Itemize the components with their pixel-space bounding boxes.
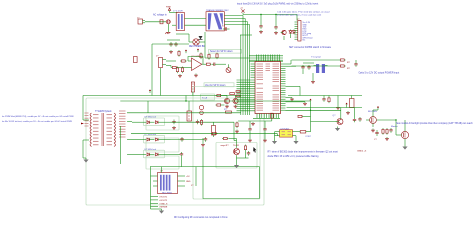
svg-text:for Rts W RX trickset, usable: for Rts W RX trickset, usable per 5V - 4… bbox=[2, 120, 72, 123]
svg-text:diode PMC 15 to WM +3.3, power: diode PMC 15 to WM +3.3, powered while b… bbox=[268, 155, 320, 158]
power flag bbox=[377, 106, 379, 110]
crystal Y1 bbox=[314, 64, 328, 73]
wire bbox=[283, 36, 285, 40]
wire bbox=[170, 66, 172, 68]
wire feedback loop bbox=[188, 57, 203, 65]
wire bbox=[234, 140, 237, 142]
resistor R28 bbox=[216, 104, 223, 106]
wire long rail A bbox=[127, 112, 241, 114]
comment TL431 line2 bbox=[268, 155, 320, 158]
wire bbox=[166, 60, 176, 62]
svg-text:D? SS54 sch: D? SS54 sch bbox=[145, 134, 157, 136]
wire bbox=[323, 96, 325, 98]
resistor R18 bbox=[382, 128, 384, 135]
svg-text:PC817: PC817 bbox=[306, 136, 312, 138]
ground bbox=[201, 143, 205, 146]
capacitor C20 bbox=[180, 137, 183, 142]
capacitor C18 bbox=[172, 120, 175, 125]
junction bbox=[395, 119, 396, 120]
ground bbox=[248, 139, 252, 142]
wire bbox=[312, 73, 314, 80]
wire T1 primary top bbox=[82, 96, 84, 121]
resistor R3 snubber bbox=[208, 53, 210, 60]
wire bbox=[337, 96, 339, 107]
section box rectifier D5 bbox=[146, 116, 179, 130]
wire bbox=[151, 175, 154, 177]
resistor R7 bbox=[205, 63, 212, 65]
comment C1 C16 line2 bbox=[277, 13, 322, 16]
comment TL431 line1 bbox=[268, 150, 339, 153]
power +12V bbox=[346, 103, 348, 107]
wire bbox=[355, 60, 357, 62]
wire bbox=[376, 119, 396, 121]
ground bbox=[336, 106, 340, 109]
wire bbox=[404, 143, 406, 145]
wire bbox=[202, 138, 204, 143]
wire bbox=[264, 121, 266, 127]
resistor R14 bbox=[339, 65, 346, 67]
ground opto out bbox=[293, 140, 298, 145]
resistor R17 bbox=[386, 128, 388, 135]
wire bbox=[259, 167, 261, 199]
wire T1 left drop bbox=[119, 126, 121, 164]
svg-text:AC voltage in: AC voltage in bbox=[153, 13, 167, 16]
resistor R20 bbox=[211, 132, 218, 134]
capacitor C2 X2 bbox=[174, 42, 177, 47]
svg-text:>VOUT1: >VOUT1 bbox=[159, 196, 168, 199]
diode D3 bbox=[292, 30, 295, 35]
wire T2 out 1 bbox=[224, 15, 243, 17]
fuse F1 lamp bbox=[166, 20, 170, 24]
section box diode D6 output rectifier bbox=[144, 135, 165, 143]
wire bbox=[166, 65, 171, 67]
svg-text:HLK-PM01: HLK-PM01 bbox=[162, 193, 173, 195]
common-mode choke L1 bbox=[176, 13, 184, 31]
power flag right bbox=[309, 99, 311, 103]
label R14 bbox=[347, 68, 351, 70]
capacitor C19 bbox=[196, 120, 199, 125]
wire top rail bbox=[243, 14, 297, 16]
svg-text:Y1 crystal: Y1 crystal bbox=[311, 56, 321, 59]
wire bbox=[236, 139, 238, 141]
wire module right bbox=[195, 167, 197, 186]
IC U2 microcontroller bbox=[255, 62, 281, 114]
T1 pin leads bbox=[83, 120, 132, 155]
wire long rail B bbox=[131, 133, 278, 135]
ground bbox=[178, 74, 182, 77]
comment SET line bbox=[289, 46, 332, 49]
wire Q2 drop bbox=[192, 92, 194, 96]
comment left line1 bbox=[2, 115, 74, 118]
section box diode D7 output rectifier bbox=[144, 150, 165, 158]
label K1 bbox=[162, 193, 173, 195]
section box feedback TL431 bbox=[216, 143, 257, 169]
svg-text:PWR: PWR bbox=[166, 7, 171, 9]
wire T2 out 3 bbox=[224, 21, 247, 23]
wire bbox=[275, 15, 277, 26]
earth ground chassis bbox=[165, 31, 170, 34]
ground primary bbox=[83, 158, 88, 163]
capacitor C22 bbox=[247, 151, 250, 156]
resistor R4 snubber bbox=[216, 53, 218, 60]
potentiometer RV1 bbox=[226, 64, 231, 73]
svg-text:Optio 5 to 12V DC output POWER: Optio 5 to 12V DC output POWER input bbox=[359, 72, 400, 75]
wire below U2 bbox=[253, 117, 280, 119]
transformer T1 flyback bbox=[85, 111, 126, 147]
ground bbox=[263, 139, 267, 142]
wire long rail C bbox=[150, 166, 260, 168]
capacitor C17 bbox=[354, 62, 357, 67]
ground bbox=[303, 102, 307, 105]
section box diode D5 output rectifier bbox=[144, 118, 165, 126]
resistor R10 pulldown bbox=[271, 113, 273, 121]
wire below U2 rail bbox=[238, 120, 272, 122]
wire to opamp inv bbox=[178, 67, 188, 69]
svg-text:wxya R?: wxya R? bbox=[221, 145, 230, 147]
comment option bbox=[359, 72, 400, 75]
TL431 U5 bbox=[233, 144, 240, 160]
diode D6 output rectifier bbox=[132, 134, 171, 141]
capacitor C14 bbox=[358, 117, 361, 122]
ground bbox=[169, 50, 173, 53]
svg-text:>SENSE: >SENSE bbox=[159, 206, 168, 209]
svg-text:>GND_S: >GND_S bbox=[159, 202, 168, 205]
resistor R1 bleeder bbox=[178, 50, 180, 57]
pin arrow T1 bbox=[81, 123, 84, 125]
transistor Q1 bbox=[281, 30, 287, 34]
optocoupler U4 highlighted bbox=[280, 130, 293, 137]
ground bbox=[251, 122, 255, 125]
capacitor C21 bbox=[180, 152, 183, 157]
wire bbox=[181, 157, 183, 167]
label L1 bbox=[173, 10, 183, 12]
resistor R29 bbox=[230, 93, 235, 95]
wire T2 bottom drop bbox=[204, 32, 206, 58]
wire HV rail to T1 bbox=[83, 95, 241, 97]
junction bbox=[260, 14, 261, 15]
op-amp U3 bbox=[188, 56, 205, 70]
ground bbox=[371, 129, 375, 132]
connector J7 vertical bbox=[191, 82, 194, 92]
wire bbox=[226, 96, 228, 99]
comment mosfet bbox=[396, 122, 473, 125]
wire bbox=[229, 138, 237, 140]
wire bbox=[295, 136, 297, 140]
label R13 bbox=[347, 62, 351, 64]
wire bbox=[249, 121, 251, 127]
label J6 bbox=[191, 185, 194, 187]
wire opto to Q5 base bbox=[311, 121, 336, 123]
wire row3 bbox=[171, 153, 181, 155]
power flag HV bbox=[149, 89, 151, 93]
transistor Q5 bbox=[335, 114, 343, 125]
wire bbox=[188, 101, 190, 111]
capacitor C10 bbox=[301, 65, 304, 70]
MOSFET M1 bbox=[366, 113, 376, 127]
wire bbox=[354, 108, 356, 118]
resistor R19 bbox=[200, 119, 202, 126]
svg-text:SET connector FW350 switch in: SET connector FW350 switch in firmware bbox=[289, 46, 332, 49]
resistor R2 snubber bbox=[200, 53, 202, 60]
wire rail to Q5 bbox=[286, 109, 341, 111]
wire T2 output corners bbox=[242, 16, 244, 18]
svg-text:IO_A: IO_A bbox=[202, 96, 208, 99]
svg-text:T? ER25 flyback: T? ER25 flyback bbox=[95, 111, 112, 113]
section box secondary side outer bbox=[86, 98, 264, 205]
wire choke lower left stub bbox=[172, 24, 176, 26]
resistor R21 bbox=[222, 137, 229, 139]
wire bbox=[236, 141, 238, 145]
resistor R9 bbox=[181, 67, 183, 74]
U2 right pins bbox=[281, 64, 286, 110]
label T1 bbox=[95, 111, 112, 113]
label T2 bbox=[206, 9, 229, 12]
wire bbox=[277, 134, 279, 136]
wire bbox=[340, 108, 342, 115]
capacitor C4 bbox=[259, 24, 262, 29]
cursor arrow bbox=[253, 147, 256, 153]
svg-text:RF Configuring RF commands not: RF Configuring RF commands not completed… bbox=[174, 216, 228, 219]
svg-text:Mosfet: Mosfet bbox=[391, 125, 398, 128]
label BR1 bbox=[189, 46, 205, 48]
svg-text:Select for SP IO down: Select for SP IO down bbox=[210, 50, 233, 53]
small connector J4 bbox=[134, 57, 138, 63]
label M2 bbox=[391, 125, 398, 128]
svg-text:L? 2.2mH: L? 2.2mH bbox=[173, 10, 183, 12]
ground feedback bbox=[234, 164, 239, 169]
connector J2 programming header bbox=[297, 19, 301, 41]
wire feedback tap bbox=[233, 122, 235, 140]
wire U2 pin to R14 bbox=[292, 65, 340, 67]
resistor R22 bbox=[244, 145, 246, 152]
ground bbox=[335, 127, 340, 132]
wire bbox=[235, 95, 237, 98]
capacitor C23 bbox=[263, 127, 266, 132]
wire vertical x310 bbox=[310, 102, 312, 132]
comment C1 C16 line1 bbox=[277, 10, 330, 13]
junction bbox=[185, 100, 186, 101]
wire J3 drop bbox=[160, 68, 162, 96]
wire bbox=[396, 134, 398, 136]
label AC input bbox=[153, 13, 167, 16]
resistor R26 horizontal bbox=[224, 109, 232, 113]
capacitor C20b bbox=[204, 137, 207, 142]
resistor R5 bbox=[171, 66, 178, 68]
transistor Q6 small bbox=[199, 105, 203, 109]
wire mesh above U2 bbox=[249, 55, 283, 62]
regulator U6 TO-220 bbox=[187, 111, 192, 121]
capacitor C11 bbox=[307, 65, 310, 70]
wire bbox=[222, 104, 224, 106]
ground bbox=[402, 145, 407, 150]
relay module K1 bbox=[158, 171, 178, 194]
wire bbox=[188, 34, 190, 42]
wire module left bbox=[150, 167, 152, 209]
resistor R6 bbox=[180, 60, 187, 62]
wire pwr to choke bbox=[170, 12, 178, 14]
section box power feedback bbox=[193, 87, 260, 200]
connector J1 AC inlet bbox=[137, 17, 145, 24]
wire bbox=[346, 106, 348, 107]
net label box A bbox=[201, 94, 215, 100]
ground bbox=[290, 97, 294, 100]
wire bbox=[372, 110, 374, 113]
bridge rectifier BR1 bbox=[189, 39, 203, 45]
diode D1 bbox=[199, 36, 203, 40]
diode D8 small bbox=[200, 111, 204, 115]
label bbox=[205, 84, 226, 87]
resistor R12 bbox=[236, 122, 238, 129]
ground opto in bbox=[272, 140, 277, 145]
svg-text:U? PC817: U? PC817 bbox=[281, 128, 290, 130]
comment left line2 bbox=[2, 120, 72, 123]
section label box Vout bbox=[204, 83, 234, 87]
resistor R23 bbox=[236, 91, 240, 93]
svg-text:D? SS54 sch: D? SS54 sch bbox=[145, 149, 157, 151]
ground bbox=[311, 80, 315, 83]
wire bbox=[292, 59, 340, 61]
wire bbox=[328, 96, 330, 97]
wire module top feed bbox=[161, 167, 163, 173]
svg-text:C1& C16 apex takes. P for vned: C1& C16 apex takes. P for vned two conta… bbox=[277, 10, 330, 13]
ground bbox=[346, 111, 350, 114]
svg-text:IRLZ44N: IRLZ44N bbox=[368, 111, 377, 113]
label Q5 bbox=[333, 115, 337, 117]
wire row1 bbox=[171, 121, 235, 123]
resistor R15 bbox=[328, 97, 330, 104]
svg-text:in defensible apex takes, if n: in defensible apex takes, if not, usab t… bbox=[277, 13, 322, 16]
wire bbox=[237, 157, 249, 159]
svg-text:TRANSFORMER 230V: TRANSFORMER 230V bbox=[206, 9, 229, 12]
wire bbox=[373, 109, 378, 111]
wire bbox=[296, 15, 298, 21]
U4 pins bbox=[275, 132, 298, 136]
wire bbox=[404, 120, 406, 127]
net stubs right of module bbox=[178, 176, 192, 186]
label net bbox=[357, 150, 367, 152]
resistor R25 vertical bbox=[212, 122, 216, 137]
capacitor C8 bbox=[212, 63, 217, 66]
wire bbox=[290, 34, 292, 38]
pin rows with net labels bbox=[151, 196, 168, 209]
resistor R24 bbox=[236, 95, 240, 97]
ground bbox=[259, 30, 263, 33]
power flag PWR_FLAG1 bbox=[166, 7, 171, 13]
label section select bbox=[210, 50, 233, 53]
wire choke to T2 lower bbox=[185, 24, 207, 26]
ground bbox=[235, 130, 239, 133]
ground bbox=[385, 137, 389, 140]
wire bbox=[264, 132, 266, 139]
svg-text:D? SS54 sch: D? SS54 sch bbox=[145, 117, 157, 119]
section label box bbox=[209, 50, 242, 54]
wire bbox=[203, 41, 205, 43]
wire bbox=[260, 15, 262, 25]
K1 pins left bbox=[153, 176, 158, 186]
capacitor C5 bbox=[274, 25, 277, 30]
wire bbox=[377, 109, 379, 111]
wire ground return loop bbox=[203, 147, 260, 199]
capacitor C9 bbox=[248, 127, 251, 132]
power +3V3 bbox=[197, 49, 199, 53]
wire bbox=[83, 157, 86, 159]
wire T2 out 2 bbox=[224, 18, 245, 20]
svg-text:GND: GND bbox=[186, 181, 191, 183]
resistor R27 bbox=[216, 94, 223, 96]
wire bbox=[245, 151, 247, 158]
wire rail bbox=[288, 95, 362, 97]
wire long rail D bbox=[120, 100, 310, 102]
wire bbox=[176, 33, 189, 35]
svg-text:New mosfet A that light provid: New mosfet A that light provide than the… bbox=[396, 122, 473, 125]
wire bridge in bbox=[167, 39, 180, 41]
wire choke to T2 upper bbox=[185, 18, 207, 20]
power +3V3 bbox=[185, 50, 187, 54]
connector J3 sense input bbox=[156, 56, 166, 68]
MOSFET M2 bbox=[398, 127, 409, 143]
wires U2 right fanout bbox=[286, 60, 306, 102]
ground bbox=[225, 105, 229, 108]
wire bbox=[152, 43, 189, 45]
wire bbox=[299, 86, 301, 95]
label bbox=[306, 136, 312, 138]
transistor Q3 bbox=[224, 98, 229, 103]
U2 left pins bbox=[237, 64, 256, 111]
comment top bbox=[237, 2, 318, 5]
ground module bbox=[159, 209, 164, 214]
ground bbox=[274, 31, 278, 34]
resistor R30 bbox=[297, 131, 311, 133]
wire bbox=[302, 70, 304, 74]
wire rail ext bbox=[287, 107, 329, 109]
comment bottom bbox=[174, 216, 228, 219]
diode D5 output rectifier bbox=[132, 117, 171, 124]
wire T1 primary bottom bbox=[82, 140, 84, 158]
power flag X bbox=[240, 8, 245, 15]
pins J2 bbox=[295, 22, 298, 39]
ground bbox=[194, 74, 198, 77]
wire bbox=[222, 95, 227, 97]
wire bbox=[249, 132, 251, 139]
transformer T2 auxiliary bbox=[206, 12, 224, 31]
pin labels J2 bbox=[303, 22, 313, 41]
svg-text:TL431: TL431 bbox=[233, 145, 240, 147]
diode D2 bbox=[289, 30, 292, 35]
wire bus verticals left of U2 bbox=[205, 16, 252, 116]
U2 bottom pins bbox=[257, 114, 279, 119]
ground bbox=[172, 126, 176, 129]
wire row2 bbox=[171, 139, 205, 141]
capacitor C3 bbox=[222, 26, 230, 31]
svg-text:R?: trimm if BG362 diode trim: R?: trimm if BG362 diode trim improvemen… bbox=[268, 150, 339, 153]
resistor R31 bbox=[298, 115, 311, 117]
wire bbox=[217, 63, 226, 65]
svg-text:RECTIFIER BR: RECTIFIER BR bbox=[189, 46, 205, 48]
label M1 bbox=[368, 111, 377, 113]
svg-text:>VOUT2: >VOUT2 bbox=[159, 199, 168, 202]
wire bbox=[328, 107, 362, 109]
capacitor C12 bbox=[322, 97, 325, 102]
wire T2 out 4 bbox=[224, 24, 249, 26]
capacitor C13 bbox=[353, 118, 356, 123]
svg-text:input fuse(2A) ClII 6A 5V, 3x3: input fuse(2A) ClII 6A 5V, 3x3 plug 3x2k… bbox=[237, 2, 318, 5]
transistor Q4 bbox=[233, 98, 238, 103]
junction bbox=[275, 14, 276, 15]
wire bbox=[303, 62, 314, 64]
label Y1 bbox=[311, 56, 321, 59]
section box rectifier D7 bbox=[146, 156, 179, 169]
junction bbox=[310, 110, 311, 111]
